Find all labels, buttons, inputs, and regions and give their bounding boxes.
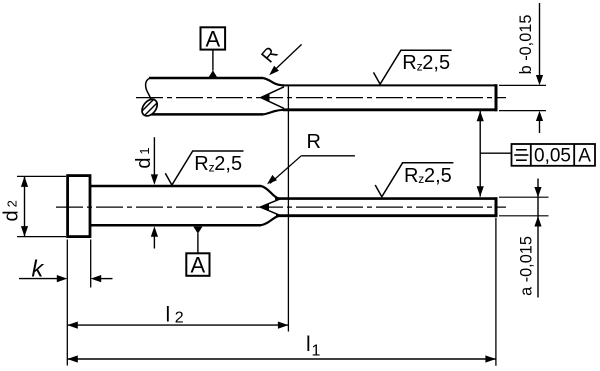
svg-text:1: 1: [312, 343, 321, 360]
svg-text:b -0,015: b -0,015: [517, 15, 535, 75]
svg-text:R: R: [194, 153, 208, 175]
svg-text:2: 2: [175, 310, 184, 327]
svg-text:k: k: [32, 256, 45, 282]
svg-text:A: A: [578, 146, 591, 167]
svg-text:A: A: [191, 253, 206, 278]
svg-text:0,05: 0,05: [534, 146, 571, 167]
svg-text:d2: d2: [0, 200, 22, 221]
svg-text:2,5: 2,5: [214, 153, 242, 175]
svg-text:R: R: [402, 52, 416, 74]
svg-text:d1: d1: [133, 147, 155, 168]
svg-text:R: R: [307, 131, 321, 153]
svg-text:l: l: [166, 303, 171, 326]
svg-text:A: A: [206, 27, 221, 52]
svg-text:l: l: [306, 333, 311, 356]
svg-text:R: R: [404, 165, 418, 187]
svg-text:2,5: 2,5: [424, 165, 452, 187]
svg-text:a -0,015: a -0,015: [518, 236, 536, 296]
svg-text:2,5: 2,5: [422, 52, 450, 74]
